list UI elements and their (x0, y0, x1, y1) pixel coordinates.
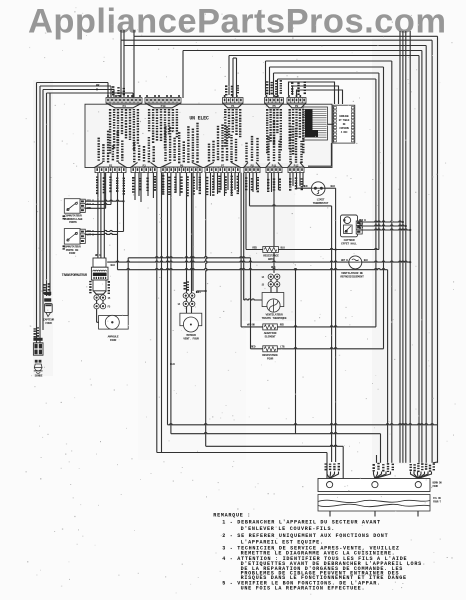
wire drops from P6 (162, 173, 164, 194)
svg-text:RED: RED (303, 185, 308, 188)
svg-text:AMPOULE: AMPOULE (108, 336, 119, 339)
connector P12 bottom (289, 126, 291, 127)
svg-text:REFROIDISSEMENT: REFROIDISSEMENT (340, 276, 364, 279)
wire left bundle horizontal tops (37, 82, 109, 84)
wire stubs into bundle3 (399, 461, 401, 464)
wire loop y454 drop (326, 453, 328, 479)
svg-text:WHT B: WHT B (341, 259, 348, 262)
label wire codes below board (96, 177, 98, 178)
label bundle 1 codes (325, 463, 327, 464)
fuse pair motor 2 (183, 301, 188, 306)
wire right vertical bundle (437, 36, 439, 462)
scan tint right bundle (372, 38, 440, 464)
scan tint left bundle (33, 80, 53, 376)
resistor RESISTANCE FOUR (251, 348, 263, 350)
svg-text:BLK: BLK (331, 185, 336, 188)
terminal strip (318, 479, 430, 492)
connector P7 bottom (208, 144, 210, 146)
connector P10 top (145, 98, 181, 103)
svg-text:BLK: BLK (111, 264, 116, 267)
label bundle 2 codes (373, 464, 375, 466)
wire S2 to verticals (86, 230, 124, 231)
svg-text:FOUR: FOUR (69, 252, 76, 255)
svg-text:RED: RED (251, 346, 256, 349)
connector P11 bottom (267, 136, 269, 138)
svg-text:THERMOSTAT: THERMOSTAT (313, 202, 329, 205)
transformer T1 (93, 258, 106, 267)
motor MOTEUR VENT FOUR (180, 313, 202, 326)
lamp AMPOULE FOUR (96, 309, 98, 322)
svg-text:LTB: LTB (280, 346, 285, 349)
board ribbon connector block (303, 107, 328, 140)
svg-text:F5: F5 (108, 305, 111, 308)
wire loop y424 (168, 424, 438, 425)
connector P6 bottom (164, 126, 166, 127)
wire drops from P3 (134, 173, 136, 200)
motor cooling fan (349, 256, 362, 269)
wire slant 437 in (433, 461, 438, 464)
wire drops from P12 (289, 173, 291, 186)
wire lamp up (127, 258, 129, 316)
wire ribbon to clock (328, 123, 334, 125)
clock display module (333, 105, 355, 143)
wire stubs under watermark (120, 30, 122, 40)
wire S1 to verticals (86, 200, 124, 201)
svg-text:UNE FOIS LA REPARATION EFFECTU: UNE FOIS LA REPARATION EFFECTUEE. (241, 585, 366, 591)
scan tint board (85, 104, 332, 168)
svg-text:WHT/BK: WHT/BK (247, 323, 256, 327)
wire drops from P11 (267, 173, 269, 190)
svg-text:RESISTANCE: RESISTANCE (262, 354, 278, 357)
junction S1 (122, 200, 124, 202)
svg-text:TRANSFORMATEUR: TRANSFORMATEUR (62, 274, 88, 278)
svg-text:1 - DEBRANCHER L'APPAREIL DU S: 1 - DEBRANCHER L'APPAREIL DU SECTEUR AVA… (222, 519, 381, 525)
svg-text:BLK: BLK (359, 227, 364, 230)
wires hall sensor right (357, 221, 403, 222)
wire top bus lines (134, 35, 438, 37)
svg-text:FOUR: FOUR (433, 485, 439, 488)
label left wire codes (44, 284, 46, 286)
oven element box (318, 495, 430, 512)
label stubs above connectors (112, 86, 114, 88)
wire stubs into bundle2 (380, 461, 382, 464)
svg-text:2 - SE REFERER UNIQUEMENT AUX: 2 - SE REFERER UNIQUEMENT AUX FONCTIONS … (222, 533, 388, 539)
svg-text:15: 15 (108, 297, 111, 300)
wire fuses (96, 294, 98, 296)
wire element stubs (329, 511, 331, 517)
svg-text:EFFET HALL: EFFET HALL (341, 243, 357, 246)
wire aeration feeds (240, 173, 242, 327)
svg-text:PORTE: PORTE (69, 221, 77, 224)
svg-text:BK E: BK E (95, 254, 101, 257)
svg-text:AppliancePartsPros.com: AppliancePartsPros.com (28, 3, 446, 41)
wire left bundle verticals (36, 83, 38, 344)
wire drops from P7 (206, 173, 207, 447)
fan VENTILATEUR TRAITEMENT (262, 293, 284, 307)
wire clock bottom (330, 143, 332, 166)
switch S1 door lock (64, 199, 80, 214)
label motor wire codes (184, 282, 186, 284)
svg-text:BLK: BLK (364, 259, 369, 262)
wire thermostat down (335, 188, 337, 462)
svg-text:AERATION: AERATION (264, 332, 277, 335)
fuse F1 pair (94, 295, 99, 300)
wire bundle 1 converge (327, 472, 330, 479)
svg-text:REMARQUE :: REMARQUE : (213, 513, 251, 519)
wire loop y443 (206, 445, 344, 446)
svg-text:HORLOGE: HORLOGE (339, 115, 349, 118)
svg-text:CUISSON: CUISSON (339, 127, 349, 130)
wire bundle 3 converge (411, 472, 419, 479)
connector P3 bottom (133, 142, 135, 143)
wire loop y434 drop (380, 434, 382, 462)
wire mid bus 1 (128, 257, 250, 258)
svg-text:LIMIT: LIMIT (317, 199, 325, 202)
wire loop y454 (157, 452, 327, 454)
probe SONDE (33, 338, 42, 341)
scan tint center (138, 170, 246, 460)
svg-text:ELEMENT: ELEMENT (265, 336, 276, 339)
wire loop y434 (171, 433, 381, 434)
wire vent left (244, 299, 262, 300)
wire motor pairs (186, 298, 188, 301)
svg-text:RED B: RED B (359, 219, 366, 222)
switch S2 door (64, 229, 80, 245)
scan speckles (127, 324, 128, 327)
resistor RESISTANCE GRIL (246, 249, 263, 251)
label bundle 3 codes (410, 464, 412, 465)
wire loop thermostat label (249, 173, 251, 206)
fuse pair motor 1 (183, 293, 188, 298)
svg-text:FOUR: FOUR (267, 358, 274, 361)
svg-text:FOUR: FOUR (110, 339, 117, 342)
wire mid bus 3 (118, 269, 388, 270)
svg-text:WHT: WHT (359, 223, 364, 226)
svg-text:RED: RED (280, 324, 285, 327)
sensor CAPTEUR FOUR (44, 292, 51, 295)
svg-text:4 OSC: 4 OSC (341, 131, 348, 134)
wire bundle 2 converge (374, 472, 375, 479)
wire mid bus 2 (107, 261, 349, 262)
svg-text:VENTILATEUR DE: VENTILATEUR DE (341, 272, 363, 275)
wire drops from P8 (245, 173, 247, 250)
connector P8 bottom (245, 143, 247, 145)
resistor AERATION (241, 326, 263, 328)
wire loop y443 drop (342, 446, 344, 478)
wire four right feed (295, 270, 297, 434)
fuse pair vent 1 (268, 274, 273, 279)
connector P4 top (106, 98, 142, 103)
svg-text:FOUR T: FOUR T (433, 501, 442, 504)
connector P1 top (223, 98, 244, 103)
svg-text:D'ENLEVER LE COUVRE-FILS.: D'ENLEVER LE COUVRE-FILS. (241, 526, 335, 532)
connector P5 top (265, 98, 284, 103)
wire left bundle drops to connector 1 (107, 83, 109, 98)
wire drops from P2 (97, 173, 99, 258)
wire conn5 to clock (289, 82, 335, 104)
fuse F2 pair (94, 304, 99, 309)
fuse pair vent 2 (268, 282, 273, 287)
wire motor right (197, 290, 206, 292)
svg-text:ET TABLE: ET TABLE (339, 119, 350, 122)
board UN ELEC outline (85, 104, 332, 167)
svg-text:CAPTEUR: CAPTEUR (344, 239, 355, 242)
connector P9 top (287, 98, 306, 103)
module CAPTEUR HALL (341, 215, 358, 237)
wire bus left drops (120, 40, 122, 97)
wire vent pairs (270, 279, 272, 282)
junction hall (402, 221, 404, 223)
thermostat limit (297, 187, 313, 189)
connector P2 bottom (98, 138, 100, 140)
